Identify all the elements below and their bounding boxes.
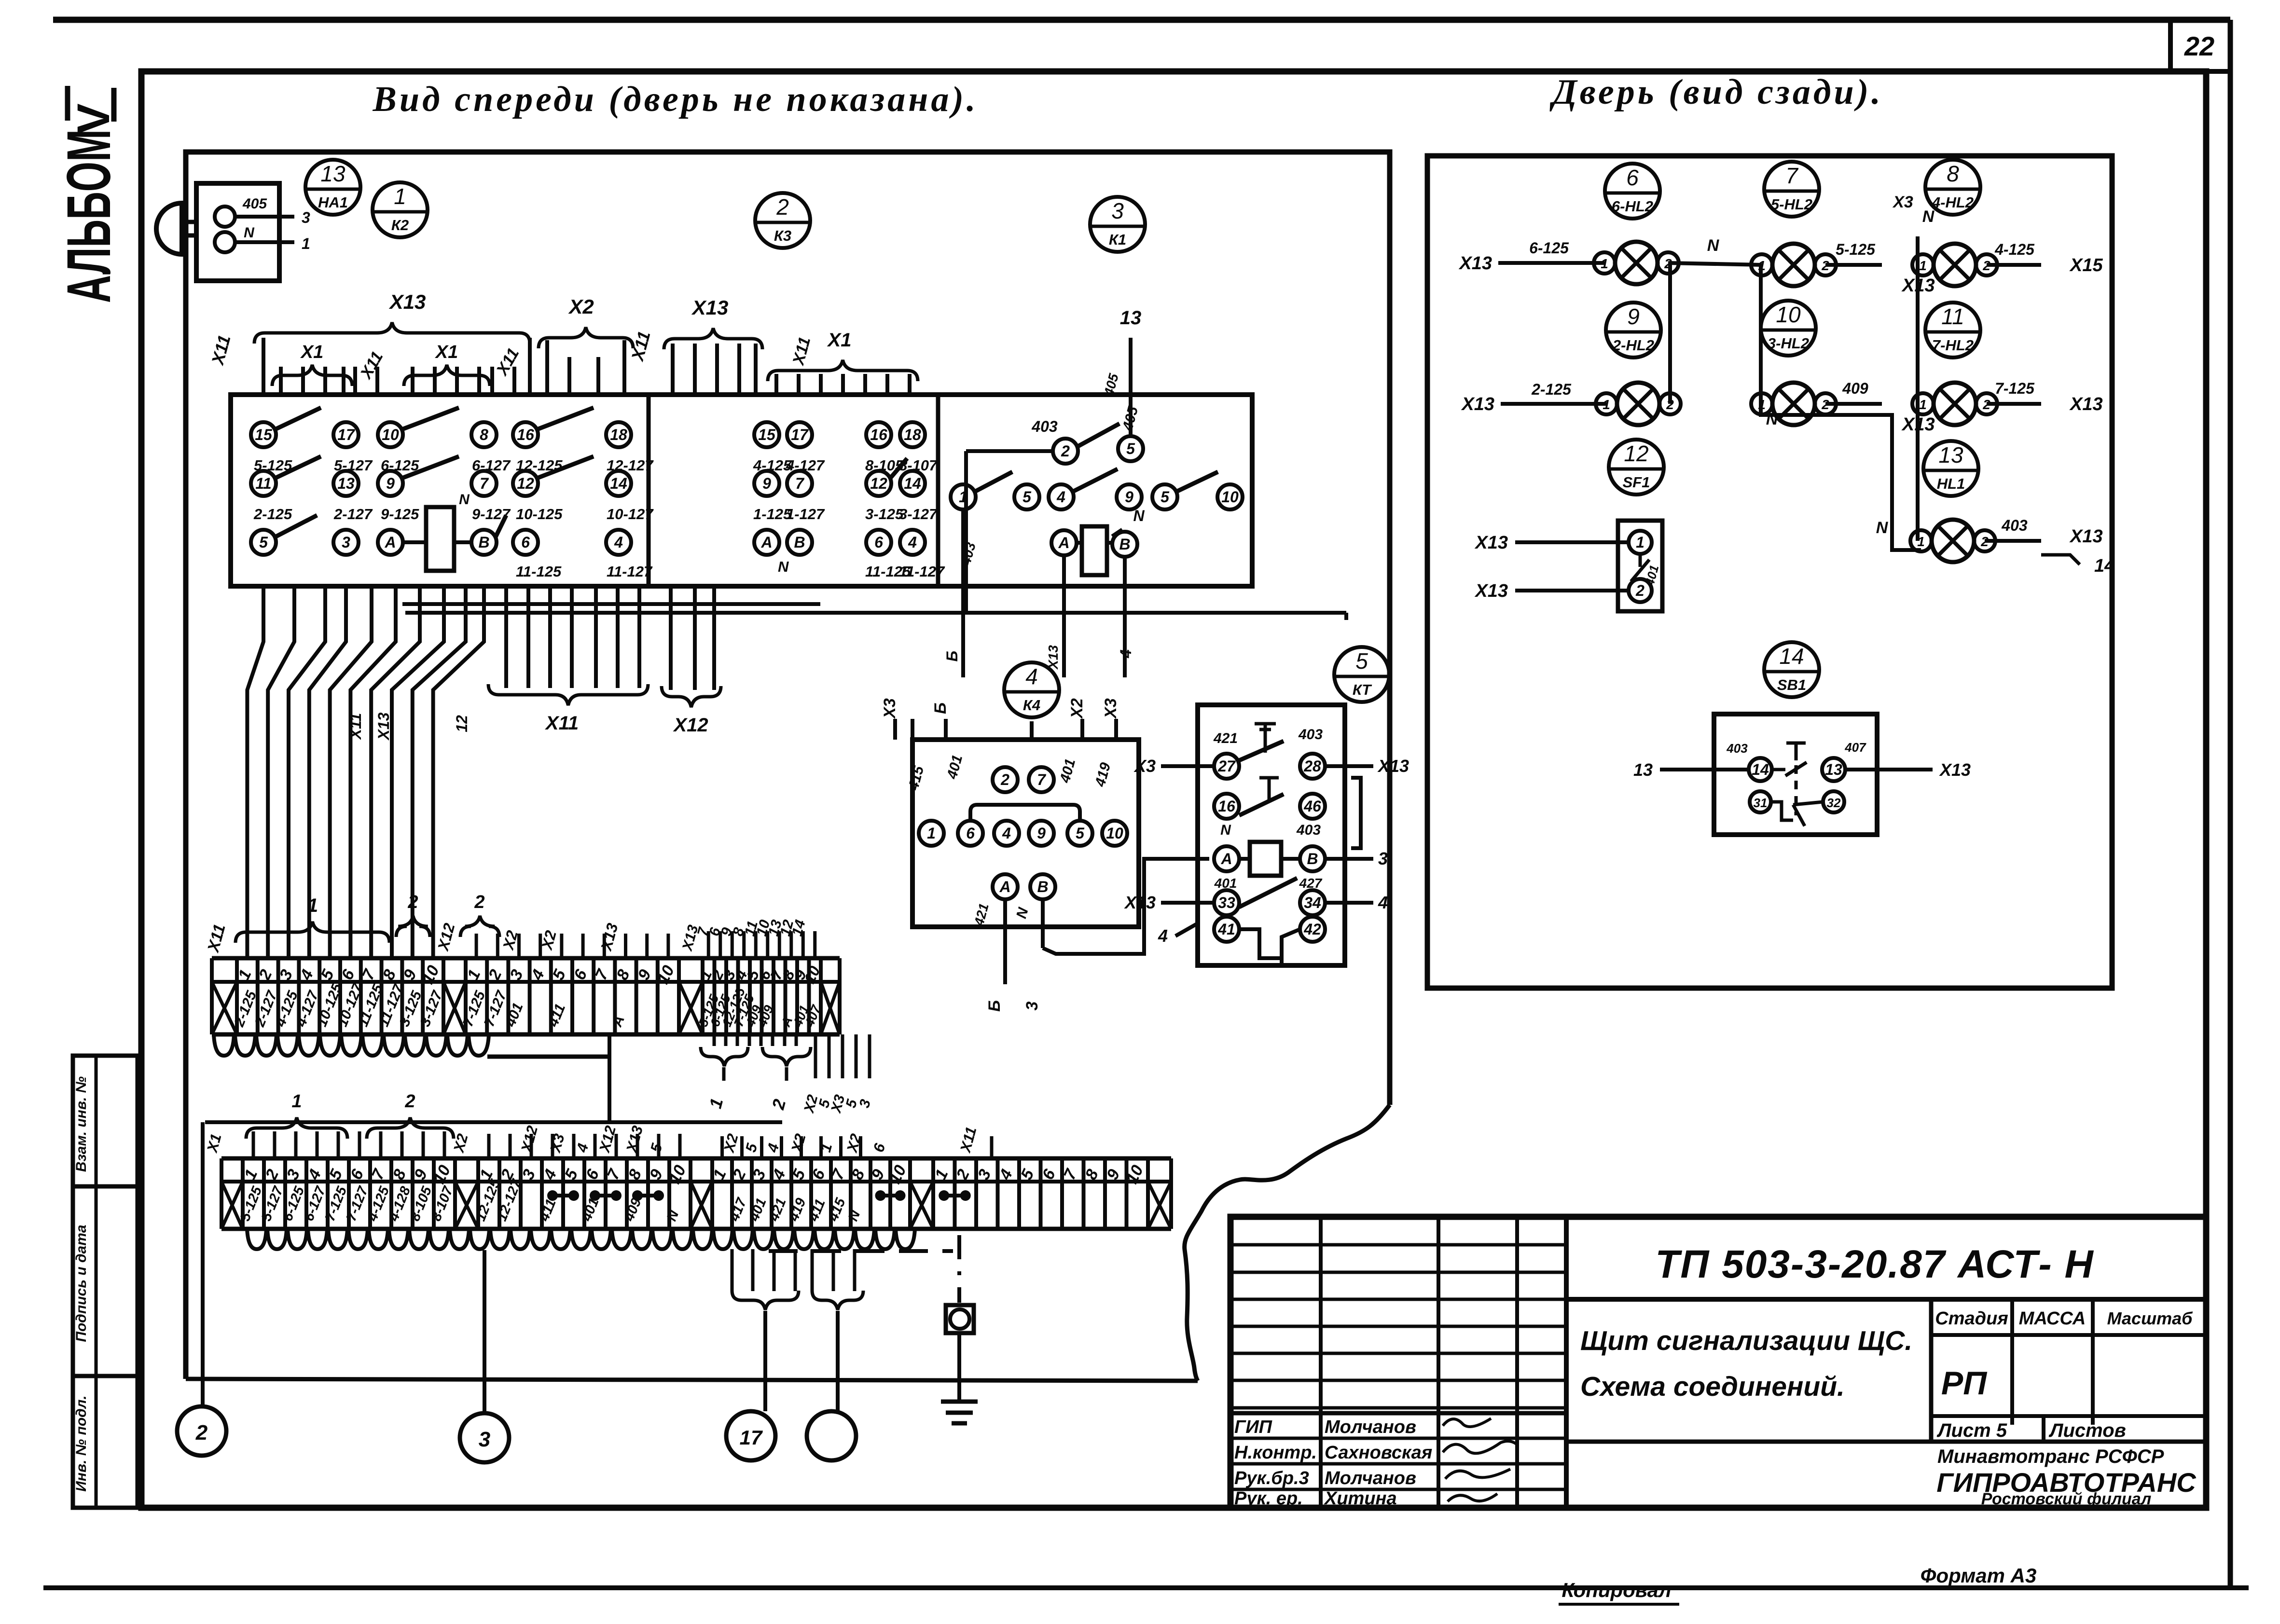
- svg-text:13: 13: [1120, 307, 1142, 329]
- svg-text:16: 16: [517, 426, 534, 443]
- svg-text:407: 407: [1844, 740, 1866, 755]
- svg-text:3: 3: [342, 534, 350, 551]
- svg-text:403: 403: [2001, 517, 2028, 534]
- svg-text:Н.контр.: Н.контр.: [1234, 1443, 1317, 1463]
- svg-text:7: 7: [795, 475, 805, 492]
- svg-text:5: 5: [1076, 825, 1085, 842]
- svg-text:4-125: 4-125: [1994, 241, 2035, 258]
- svg-text:1: 1: [302, 235, 310, 252]
- svg-text:X3: X3: [881, 698, 899, 719]
- svg-text:10: 10: [1106, 825, 1123, 842]
- svg-text:N: N: [1220, 822, 1231, 838]
- svg-text:X13: X13: [1377, 756, 1409, 776]
- svg-text:Щит сигнализации ЩС.: Щит сигнализации ЩС.: [1580, 1325, 1912, 1356]
- svg-text:К3: К3: [774, 227, 791, 244]
- svg-text:Сахновская: Сахновская: [1325, 1443, 1432, 1463]
- svg-text:8: 8: [480, 426, 488, 443]
- svg-text:В: В: [1307, 850, 1318, 867]
- svg-text:5: 5: [259, 534, 268, 551]
- svg-text:X13: X13: [1124, 893, 1156, 912]
- svg-text:АЛЬБОМ: АЛЬБОМ: [55, 129, 124, 303]
- svg-text:4: 4: [1002, 825, 1011, 842]
- svg-text:17: 17: [740, 1426, 763, 1449]
- svg-text:2-125: 2-125: [1531, 381, 1572, 398]
- svg-text:К1: К1: [1109, 231, 1126, 248]
- svg-text:16: 16: [870, 426, 887, 443]
- svg-text:Б: Б: [943, 651, 961, 662]
- svg-text:ГИП: ГИП: [1234, 1417, 1272, 1437]
- svg-text:9: 9: [386, 475, 395, 492]
- svg-text:SF1: SF1: [1623, 474, 1650, 491]
- svg-text:15: 15: [758, 426, 776, 443]
- svg-text:11: 11: [1941, 304, 1964, 329]
- svg-text:4: 4: [614, 534, 623, 551]
- svg-text:4: 4: [1117, 649, 1134, 659]
- svg-text:32: 32: [1827, 796, 1841, 810]
- svg-text:27: 27: [1217, 757, 1236, 775]
- svg-text:2: 2: [776, 194, 789, 220]
- svg-text:9: 9: [762, 475, 771, 492]
- svg-text:2: 2: [407, 892, 418, 912]
- svg-text:5: 5: [1023, 488, 1032, 506]
- svg-text:1: 1: [307, 895, 318, 916]
- svg-text:46: 46: [1303, 798, 1321, 815]
- svg-text:X15: X15: [2069, 255, 2103, 275]
- svg-text:X1: X1: [435, 342, 458, 362]
- svg-text:X13: X13: [1474, 533, 1508, 553]
- svg-text:Формат А3: Формат А3: [1921, 1564, 2037, 1587]
- svg-text:HL1: HL1: [1937, 475, 1965, 492]
- svg-text:2: 2: [1635, 582, 1644, 599]
- svg-text:А: А: [1058, 534, 1069, 551]
- svg-text:X1: X1: [300, 342, 323, 362]
- svg-text:12: 12: [453, 715, 470, 732]
- svg-text:1-127: 1-127: [786, 506, 825, 523]
- svg-text:X2: X2: [568, 295, 594, 318]
- svg-text:Листов: Листов: [2048, 1420, 2126, 1441]
- svg-text:Рук. ер.: Рук. ер.: [1234, 1488, 1303, 1509]
- svg-text:X13: X13: [1458, 253, 1492, 274]
- svg-text:X13: X13: [389, 290, 426, 313]
- svg-text:В: В: [1037, 878, 1048, 895]
- svg-text:Б: Б: [931, 702, 950, 714]
- svg-text:7: 7: [480, 475, 489, 492]
- svg-text:4: 4: [1378, 893, 1388, 912]
- svg-text:2-125: 2-125: [253, 506, 292, 523]
- svg-text:X13: X13: [375, 712, 392, 741]
- svg-text:1: 1: [927, 825, 936, 842]
- svg-text:22: 22: [2184, 31, 2214, 61]
- svg-text:9-125: 9-125: [381, 506, 419, 523]
- svg-text:Стадия: Стадия: [1935, 1308, 2008, 1329]
- svg-text:В: В: [1119, 536, 1130, 553]
- svg-text:2: 2: [195, 1421, 208, 1445]
- svg-text:Молчанов: Молчанов: [1325, 1417, 1416, 1437]
- svg-text:5: 5: [1161, 488, 1170, 506]
- svg-text:6: 6: [521, 534, 530, 551]
- svg-text:12: 12: [517, 475, 534, 492]
- svg-text:13: 13: [320, 161, 345, 186]
- svg-text:1: 1: [394, 184, 406, 209]
- svg-text:5-125: 5-125: [1836, 241, 1876, 258]
- svg-text:10-125: 10-125: [516, 506, 563, 523]
- svg-text:X1: X1: [827, 330, 852, 351]
- svg-text:2-HL2: 2-HL2: [1612, 337, 1654, 354]
- svg-text:18: 18: [610, 426, 627, 443]
- svg-text:16: 16: [1218, 798, 1235, 815]
- svg-text:11-127: 11-127: [607, 563, 653, 580]
- svg-text:409: 409: [1842, 380, 1868, 397]
- svg-text:10: 10: [1221, 488, 1239, 506]
- svg-text:Рук.бр.3: Рук.бр.3: [1234, 1468, 1309, 1488]
- svg-text:14: 14: [904, 475, 921, 492]
- svg-text:3-127: 3-127: [899, 506, 938, 523]
- svg-text:4: 4: [1056, 488, 1065, 506]
- svg-text:X13: X13: [1461, 394, 1494, 414]
- svg-text:N: N: [1707, 236, 1720, 255]
- svg-text:6-125: 6-125: [1529, 239, 1569, 257]
- svg-text:11-125: 11-125: [516, 563, 562, 580]
- svg-text:X13: X13: [1939, 760, 1971, 780]
- svg-text:403: 403: [1726, 741, 1748, 756]
- svg-text:1: 1: [959, 488, 967, 506]
- svg-text:34: 34: [1304, 894, 1321, 911]
- svg-text:А: А: [1220, 850, 1232, 867]
- svg-text:14: 14: [610, 475, 627, 492]
- svg-text:3: 3: [302, 209, 310, 226]
- svg-text:HA1: HA1: [318, 194, 348, 211]
- svg-text:Ростовский филиал: Ростовский филиал: [1981, 1490, 2152, 1508]
- svg-text:4: 4: [1025, 664, 1038, 689]
- svg-text:1: 1: [291, 1091, 302, 1112]
- svg-text:РП: РП: [1941, 1365, 1988, 1402]
- svg-text:МАССА: МАССА: [2019, 1308, 2086, 1329]
- svg-text:403: 403: [1298, 727, 1323, 743]
- svg-text:Вид спереди (дверь не показана: Вид спереди (дверь не показана).: [373, 80, 979, 119]
- svg-text:7: 7: [1785, 163, 1798, 188]
- svg-text:2: 2: [1000, 771, 1009, 788]
- svg-text:33: 33: [1218, 894, 1235, 911]
- svg-text:4: 4: [908, 534, 917, 551]
- svg-text:N: N: [1922, 207, 1935, 226]
- svg-text:11: 11: [255, 475, 271, 492]
- svg-text:Инв. № подл.: Инв. № подл.: [73, 1395, 89, 1491]
- svg-text:N: N: [459, 492, 470, 508]
- svg-text:X13: X13: [691, 296, 729, 319]
- svg-text:9: 9: [1627, 304, 1640, 329]
- svg-text:31: 31: [1754, 796, 1768, 810]
- svg-text:X3: X3: [1133, 756, 1156, 776]
- svg-text:14: 14: [1752, 761, 1769, 778]
- svg-text:X2: X2: [1068, 698, 1086, 719]
- svg-text:В: В: [794, 534, 805, 551]
- svg-text:Подпись и дата: Подпись и дата: [73, 1225, 89, 1342]
- svg-text:12: 12: [1624, 441, 1648, 466]
- svg-text:7: 7: [1037, 771, 1047, 788]
- svg-text:А: А: [999, 878, 1010, 895]
- svg-text:42: 42: [1303, 921, 1321, 938]
- svg-text:3: 3: [1023, 1001, 1041, 1010]
- svg-text:X12: X12: [673, 715, 708, 736]
- svg-text:Минавтотранс РСФСР: Минавтотранс РСФСР: [1937, 1446, 2164, 1467]
- svg-text:3: 3: [1378, 849, 1388, 868]
- svg-text:15: 15: [255, 426, 273, 443]
- svg-text:SB1: SB1: [1777, 676, 1806, 693]
- svg-text:2-127: 2-127: [333, 506, 373, 523]
- svg-text:Лист 5: Лист 5: [1936, 1420, 2007, 1441]
- svg-text:В: В: [478, 534, 489, 551]
- svg-text:1: 1: [1919, 397, 1927, 412]
- svg-text:3-125: 3-125: [865, 506, 904, 523]
- svg-text:1: 1: [1636, 534, 1644, 551]
- svg-text:Взам. инв. №: Взам. инв. №: [73, 1076, 89, 1172]
- svg-text:Хитина: Хитина: [1324, 1488, 1397, 1509]
- svg-text:X3: X3: [1102, 698, 1120, 719]
- svg-text:17: 17: [791, 426, 809, 443]
- svg-text:X3: X3: [1892, 193, 1913, 211]
- svg-text:4-HL2: 4-HL2: [1932, 194, 1974, 211]
- svg-text:X13: X13: [1901, 414, 1935, 435]
- svg-text:5: 5: [1126, 440, 1135, 457]
- svg-text:К4: К4: [1023, 697, 1040, 714]
- svg-text:ТП 503-3-20.87 АСТ- Н: ТП 503-3-20.87 АСТ- Н: [1655, 1242, 2094, 1286]
- svg-text:7-125: 7-125: [1995, 380, 2035, 397]
- svg-text:А: А: [384, 534, 396, 551]
- svg-text:X13: X13: [1474, 581, 1508, 601]
- svg-text:N: N: [1876, 519, 1889, 537]
- svg-text:X11: X11: [545, 713, 579, 734]
- svg-text:9: 9: [1037, 825, 1046, 842]
- svg-text:9: 9: [1125, 488, 1133, 506]
- svg-text:X13: X13: [2069, 526, 2103, 547]
- svg-text:3: 3: [479, 1428, 490, 1451]
- svg-text:Дверь (вид сзади).: Дверь (вид сзади).: [1549, 72, 1883, 112]
- svg-text:N: N: [1766, 410, 1779, 428]
- svg-text:Масштаб: Масштаб: [2107, 1308, 2194, 1328]
- svg-text:2: 2: [1061, 442, 1070, 460]
- svg-text:17: 17: [337, 426, 356, 443]
- svg-text:7-HL2: 7-HL2: [1932, 337, 1974, 354]
- svg-text:X13: X13: [2069, 394, 2103, 414]
- svg-text:Копировал: Копировал: [1561, 1579, 1671, 1601]
- svg-text:403: 403: [1296, 822, 1321, 838]
- svg-text:К2: К2: [391, 217, 409, 234]
- svg-text:3-HL2: 3-HL2: [1768, 335, 1809, 352]
- svg-text:10: 10: [382, 426, 399, 443]
- svg-text:N: N: [244, 225, 255, 241]
- svg-text:421: 421: [1213, 730, 1238, 746]
- svg-text:4: 4: [1158, 926, 1168, 946]
- svg-text:405: 405: [242, 196, 267, 212]
- svg-text:5: 5: [1355, 648, 1368, 674]
- svg-text:28: 28: [1303, 757, 1321, 775]
- svg-text:А: А: [760, 534, 772, 551]
- svg-text:18: 18: [904, 426, 921, 443]
- svg-text:1: 1: [1919, 258, 1927, 273]
- svg-text:6: 6: [874, 534, 883, 551]
- svg-text:10: 10: [1776, 302, 1801, 327]
- svg-text:Схема соединений.: Схема соединений.: [1580, 1371, 1845, 1402]
- svg-text:13: 13: [1938, 442, 1963, 468]
- svg-text:Молчанов: Молчанов: [1325, 1468, 1416, 1488]
- svg-text:3: 3: [1111, 198, 1124, 223]
- svg-text:11-127: 11-127: [899, 563, 945, 580]
- svg-text:6: 6: [966, 825, 975, 842]
- svg-text:6: 6: [1626, 165, 1639, 190]
- svg-text:403: 403: [1031, 418, 1058, 435]
- svg-text:2: 2: [404, 1091, 415, 1112]
- svg-text:13: 13: [1825, 761, 1842, 778]
- svg-text:2: 2: [474, 892, 484, 912]
- svg-text:14: 14: [1779, 644, 1804, 669]
- svg-text:13: 13: [1633, 760, 1653, 780]
- svg-text:10-127: 10-127: [607, 506, 654, 523]
- svg-text:N: N: [778, 558, 789, 575]
- svg-text:12: 12: [870, 475, 887, 492]
- svg-text:13: 13: [337, 475, 355, 492]
- svg-text:X11: X11: [347, 713, 364, 741]
- svg-text:6-HL2: 6-HL2: [1612, 198, 1653, 215]
- svg-text:5-HL2: 5-HL2: [1771, 196, 1812, 213]
- svg-text:41: 41: [1217, 921, 1235, 938]
- svg-text:Б: Б: [985, 1000, 1004, 1012]
- svg-text:КТ: КТ: [1353, 681, 1372, 698]
- svg-text:8: 8: [1947, 161, 1959, 186]
- svg-text:N: N: [1133, 507, 1145, 524]
- svg-text:14: 14: [2094, 556, 2114, 576]
